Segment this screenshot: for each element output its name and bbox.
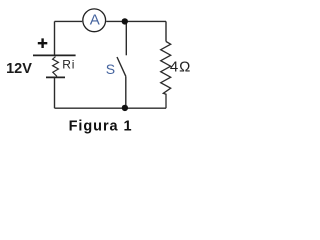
svg-text:Ri: Ri [62, 58, 75, 72]
svg-text:S: S [106, 61, 115, 77]
svg-text:12V: 12V [6, 61, 32, 77]
svg-text:4: 4 [170, 58, 178, 75]
svg-text:Ω: Ω [179, 58, 190, 75]
svg-text:A: A [90, 12, 100, 29]
svg-text:Figura 1: Figura 1 [69, 119, 133, 135]
